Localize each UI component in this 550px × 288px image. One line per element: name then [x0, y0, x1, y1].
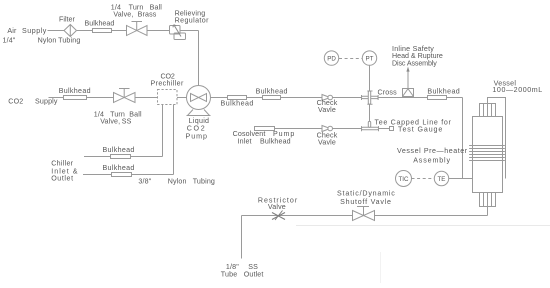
svg-text:Outlet: Outlet	[244, 271, 264, 279]
safety head SH1 rupture disc	[403, 67, 414, 97]
wire TE to vessel	[449, 178, 473, 180]
svg-text:100—2000mL: 100—2000mL	[492, 86, 542, 94]
svg-text:Nylon: Nylon	[168, 178, 187, 186]
bulkhead B2 (co2 supply)	[64, 96, 87, 100]
svg-text:Static/Dynamic: Static/Dynamic	[337, 189, 395, 197]
svg-text:Outlet: Outlet	[51, 174, 73, 182]
svg-text:Bulkhead: Bulkhead	[427, 87, 460, 95]
scan artifact faint line	[296, 225, 550, 227]
wire dashed PD to PT	[339, 58, 362, 60]
svg-text:Valve,: Valve,	[113, 10, 133, 18]
svg-text:Regulator: Regulator	[175, 16, 209, 24]
svg-text:Inlet: Inlet	[238, 137, 252, 145]
svg-text:Prechiller: Prechiller	[151, 80, 184, 88]
vessel body	[470, 98, 506, 207]
svg-text:SS: SS	[122, 118, 132, 126]
svg-text:Tube: Tube	[221, 271, 238, 279]
svg-text:Shutoff Vavle: Shutoff Vavle	[340, 198, 391, 206]
bulkhead B3 (after pump, label below)	[228, 96, 247, 100]
svg-text:Valve: Valve	[268, 203, 286, 211]
svg-text:Bulkhead: Bulkhead	[59, 87, 91, 95]
bulkhead B8 (vessel inlet)	[428, 96, 447, 100]
svg-text:1/4": 1/4"	[3, 37, 16, 45]
wire bottom outlet line	[242, 207, 488, 259]
svg-text:Tubing: Tubing	[193, 178, 215, 186]
svg-text:Bulkhead: Bulkhead	[103, 164, 135, 172]
svg-text:PT: PT	[366, 55, 374, 62]
tee fitting T1	[362, 121, 379, 131]
wire vessel inlet U-tube	[488, 98, 506, 179]
svg-text:CO2: CO2	[8, 97, 23, 105]
bulkhead B6 (chiller upper)	[111, 155, 131, 159]
svg-text:Nylon: Nylon	[38, 37, 57, 45]
cross fitting X1	[362, 91, 379, 104]
svg-text:TIC: TIC	[399, 176, 409, 183]
svg-text:Bulkhead: Bulkhead	[103, 146, 135, 154]
svg-text:3/8": 3/8"	[138, 178, 151, 186]
pump P1 liquid CO2 pump	[187, 86, 211, 116]
bulkhead B7 (chiller lower)	[112, 173, 132, 177]
svg-text:Pump: Pump	[186, 132, 208, 140]
wire cosolvent line	[275, 128, 390, 130]
svg-text:Bulkhead: Bulkhead	[85, 20, 115, 28]
cap square on tee test line	[390, 127, 394, 131]
svg-text:Valve,: Valve,	[100, 118, 120, 126]
svg-text:TE: TE	[438, 176, 446, 183]
svg-text:Supply: Supply	[22, 27, 47, 35]
svg-text:Vavle: Vavle	[318, 106, 336, 114]
wire PT stem down to cross	[369, 65, 371, 127]
svg-text:Vessel Pre—heater: Vessel Pre—heater	[397, 147, 468, 155]
regulator R1 relieving regulator	[170, 25, 186, 40]
svg-text:Brass: Brass	[138, 10, 157, 18]
svg-text:Cross: Cross	[378, 89, 398, 97]
svg-text:Supply: Supply	[35, 97, 58, 105]
prechiller PC1 dashed box	[158, 90, 178, 105]
svg-text:Tubing: Tubing	[58, 37, 80, 45]
heater coil	[470, 146, 505, 161]
svg-text:Disc Assembly: Disc Assembly	[392, 59, 437, 67]
vessel top fitting comb	[480, 104, 496, 117]
svg-text:Air: Air	[7, 27, 17, 35]
scan artifact faint vertical	[380, 252, 382, 283]
svg-text:Chiller: Chiller	[51, 159, 73, 167]
svg-text:PD: PD	[327, 55, 336, 62]
valve V1 1/4 turn ball valve brass	[127, 22, 148, 36]
svg-text:Bulkhead: Bulkhead	[256, 88, 288, 96]
wire chiller outlet line	[83, 105, 174, 175]
wire co2 supply line	[49, 98, 463, 179]
valve V3 static/dynamic shutoff	[353, 207, 375, 221]
svg-text:Filter: Filter	[59, 16, 75, 24]
instrument PD circle	[324, 51, 338, 65]
filter F1	[64, 25, 77, 37]
svg-text:Test Gauge: Test Gauge	[398, 125, 443, 133]
wire chiller inlet line	[84, 105, 163, 157]
wire dashed TIC to TE	[412, 178, 435, 180]
instrument PT circle	[362, 51, 376, 65]
svg-text:Assembly: Assembly	[413, 156, 450, 164]
restrictor valve RV1	[272, 211, 285, 221]
valve V2 1/4 turn ball valve SS	[114, 89, 136, 103]
bulkhead B1 (air line)	[93, 29, 112, 33]
svg-text:Vavle: Vavle	[318, 138, 336, 146]
svg-text:Bulkhead: Bulkhead	[221, 100, 254, 108]
vessel bottom fitting comb	[480, 193, 496, 207]
instrument TIC circle	[396, 171, 412, 187]
svg-text:Bulkhead: Bulkhead	[260, 137, 291, 145]
bulkhead B5 (cosolvent inlet)	[255, 127, 275, 131]
wire air supply line	[48, 31, 199, 86]
check valve CV2	[322, 126, 333, 132]
instrument TE circle	[434, 171, 448, 185]
check valve CV1	[322, 95, 333, 101]
bulkhead B4 (label above)	[263, 96, 281, 100]
